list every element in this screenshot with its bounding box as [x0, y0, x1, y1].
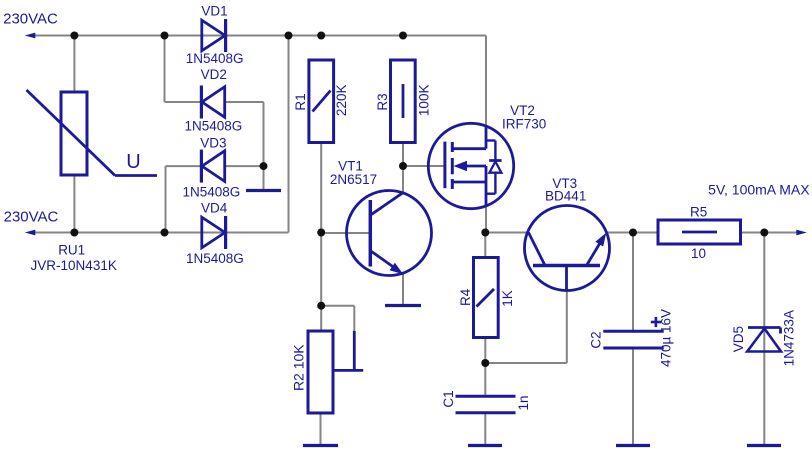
- svg-text:10: 10: [691, 246, 706, 261]
- svg-text:1N5408G: 1N5408G: [185, 119, 243, 134]
- svg-text:VD1: VD1: [201, 4, 227, 19]
- svg-text:R3: R3: [375, 93, 390, 110]
- svg-text:IRF730: IRF730: [502, 116, 546, 131]
- svg-text:VD5: VD5: [731, 326, 746, 352]
- svg-text:5V, 100mA MAX: 5V, 100mA MAX: [708, 182, 810, 198]
- svg-text:BD441: BD441: [545, 188, 586, 203]
- svg-text:220K: 220K: [334, 85, 349, 117]
- svg-text:VD3: VD3: [200, 135, 226, 150]
- svg-text:R1: R1: [293, 93, 308, 110]
- svg-text:U: U: [126, 151, 140, 173]
- svg-text:230VAC: 230VAC: [4, 208, 59, 225]
- svg-text:1K: 1K: [500, 290, 515, 307]
- svg-text:VD4: VD4: [201, 200, 228, 215]
- svg-text:100K: 100K: [416, 85, 431, 117]
- svg-text:1n: 1n: [516, 395, 531, 410]
- svg-text:1N5408G: 1N5408G: [186, 251, 244, 266]
- svg-text:470µ 16V: 470µ 16V: [659, 309, 674, 367]
- svg-text:C2: C2: [589, 331, 604, 348]
- svg-text:230VAC: 230VAC: [3, 11, 58, 28]
- svg-text:1N5408G: 1N5408G: [186, 51, 244, 66]
- svg-text:RU1: RU1: [58, 243, 85, 258]
- svg-text:1N5408G: 1N5408G: [183, 185, 241, 200]
- svg-text:1N4733A: 1N4733A: [781, 310, 796, 366]
- svg-text:VD2: VD2: [201, 67, 227, 82]
- svg-text:2N6517: 2N6517: [330, 172, 377, 187]
- svg-text:R2 10K: R2 10K: [291, 344, 307, 391]
- svg-text:JVR-10N431K: JVR-10N431K: [31, 258, 117, 273]
- svg-text:R5: R5: [690, 204, 707, 219]
- svg-text:R4: R4: [458, 288, 473, 306]
- svg-text:C1: C1: [441, 390, 456, 407]
